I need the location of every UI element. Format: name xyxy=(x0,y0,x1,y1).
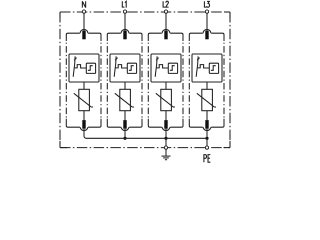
indicator bypass wire with hop (top, path L1) xyxy=(107,29,142,41)
triggered spark gap U2 (path L1) xyxy=(110,54,140,82)
thermal disconnector F4a (top, path L3) xyxy=(205,31,208,40)
indicator bypass wire with hop (bottom, path L1) xyxy=(107,119,142,131)
wire path N to PE rail (corner) xyxy=(84,129,87,139)
junction node on PE rail (path L2) xyxy=(164,137,167,140)
module boundary dash-dot sides (path N) xyxy=(66,43,101,118)
triggered spark gap U1 (path N) xyxy=(69,54,99,82)
varistor RV1 (path N) xyxy=(74,89,93,110)
indicator bypass wire with hop (top, path L2) xyxy=(148,29,183,41)
varistor RV3 (path L2) xyxy=(156,89,175,110)
terminal PE xyxy=(205,146,208,149)
terminal N xyxy=(82,10,85,13)
wire varistor to disconnector F3b (path L2) xyxy=(165,111,167,120)
wire L1 terminal to disconnector F2a xyxy=(124,14,126,31)
wire rail to PE terminal xyxy=(206,138,208,145)
thermal disconnector F2b (bottom, path L1) xyxy=(123,120,126,129)
indicator bypass wire with hop (top, path N) xyxy=(66,29,101,41)
wire varistor to disconnector F4b (path L3) xyxy=(206,111,208,120)
terminal label L3 xyxy=(204,1,206,7)
junction node on PE rail (path L1) xyxy=(123,137,126,140)
module boundary dash-dot sides (path L2) xyxy=(148,43,183,118)
indicator bypass wire with hop (top, path L3) xyxy=(189,29,224,41)
wire L2 terminal to disconnector F3a xyxy=(165,14,167,31)
terminal L3 xyxy=(205,10,208,13)
ground xyxy=(162,150,171,160)
terminal L1 xyxy=(123,10,126,13)
junction node on PE rail (path L3) xyxy=(205,137,208,140)
module boundary dash-dot sides (path L1) xyxy=(107,43,142,118)
thermal disconnector F1b (bottom, path N) xyxy=(82,120,85,129)
wire varistor to disconnector F2b (path L1) xyxy=(124,111,126,120)
terminal label N xyxy=(82,1,85,7)
terminal label L2 xyxy=(163,1,165,7)
wire path L3 to PE rail xyxy=(206,129,208,139)
varistor RV4 (path L3) xyxy=(197,89,216,110)
indicator bypass wire with hop (bottom, path L3) xyxy=(189,119,224,131)
thermal disconnector F2a (top, path L1) xyxy=(123,31,126,40)
thermal disconnector F3b (bottom, path L2) xyxy=(164,120,167,129)
wire rail to earth terminal xyxy=(165,138,167,145)
module boundary dash-dot sides (path L3) xyxy=(189,43,224,118)
wire path L1 to PE rail xyxy=(124,129,126,139)
indicator bypass wire with hop (bottom, path N) xyxy=(66,119,101,131)
wire L3 terminal to disconnector F4a xyxy=(206,14,208,31)
thermal disconnector F1a (top, path N) xyxy=(82,31,85,40)
wire spark gap to varistor (path N) xyxy=(83,82,85,89)
wire spark gap to varistor (path L3) xyxy=(206,82,208,89)
indicator bypass wire with hop (bottom, path L2) xyxy=(148,119,183,131)
varistor RV2 (path L1) xyxy=(115,89,134,110)
wire path L2 to PE rail xyxy=(165,129,167,139)
wire N terminal to disconnector F1a xyxy=(83,14,85,31)
enclosure boundary (dash-dot device outline) xyxy=(60,12,230,148)
triggered spark gap U3 (path L2) xyxy=(151,54,181,82)
triggered spark gap U4 (path L3) xyxy=(192,54,222,82)
thermal disconnector F4b (bottom, path L3) xyxy=(205,120,208,129)
PE rail (internal equipotential busbar) xyxy=(87,137,208,139)
earth terminal xyxy=(164,146,167,149)
terminal label L1 xyxy=(122,1,124,7)
terminal label PE xyxy=(204,155,211,163)
thermal disconnector F3a (top, path L2) xyxy=(164,31,167,40)
wire spark gap to varistor (path L1) xyxy=(124,82,126,89)
terminal L2 xyxy=(164,10,167,13)
wire varistor to disconnector F1b (path N) xyxy=(83,111,85,120)
wire spark gap to varistor (path L2) xyxy=(165,82,167,89)
